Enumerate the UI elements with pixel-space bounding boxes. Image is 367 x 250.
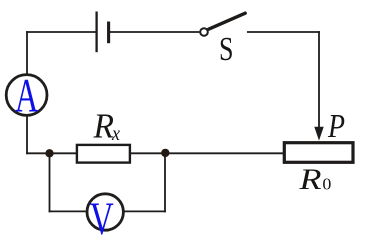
svg-text:S: S (219, 31, 234, 68)
svg-text:0: 0 (322, 175, 331, 194)
switch S pivot circle (200, 28, 208, 36)
rheostat R0 box (284, 143, 353, 163)
wire middle rail left (corner through node to Rx) (26, 152, 76, 154)
wire left vertical bottom (ammeter to middle rail) (26, 116, 28, 154)
wire top-left horizontal (node to battery) (26, 31, 95, 33)
svg-text:P: P (327, 108, 345, 145)
wire voltmeter bottom-left horizontal (49, 210, 88, 212)
node dot left junction (45, 149, 53, 157)
svg-text:R: R (93, 107, 114, 146)
voltmeter V circle (87, 194, 123, 230)
wire battery to switch (110, 31, 199, 33)
wire voltmeter bottom-right horizontal (123, 210, 166, 212)
svg-text:x: x (111, 121, 120, 145)
battery short plate (107, 22, 110, 44)
wire left vertical top (corner to ammeter) (26, 31, 28, 74)
svg-text:R: R (298, 163, 321, 196)
node dot right junction (161, 149, 169, 157)
battery long plate (95, 12, 97, 53)
wire voltmeter branch left vertical (49, 153, 51, 212)
wire switch to top-right corner (247, 31, 320, 33)
svg-text:V: V (90, 194, 114, 245)
wire middle rail right (Rx through node to rheostat) (131, 152, 284, 154)
svg-text:A: A (15, 71, 39, 123)
switch lever (209, 13, 246, 29)
wire right vertical (to wiper arrow) (318, 31, 320, 129)
wiper arrowhead P (314, 127, 323, 141)
ammeter A circle (6, 75, 47, 116)
resistor Rx box (77, 145, 130, 163)
wire voltmeter branch right vertical (164, 153, 166, 212)
